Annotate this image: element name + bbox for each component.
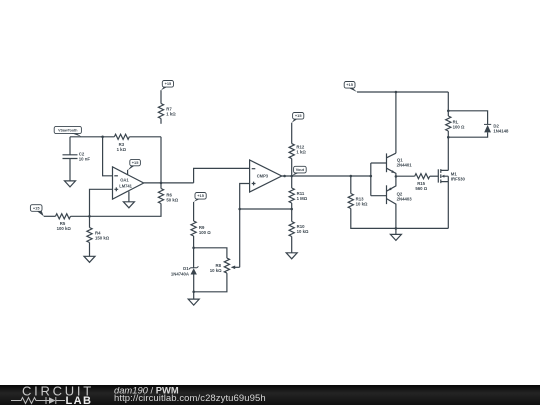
ground below R10	[286, 253, 297, 259]
wire base column and stubs	[371, 163, 387, 196]
wire R13 bottom to rail	[351, 209, 449, 229]
node D1/R8 bottom junction	[192, 291, 195, 294]
svg-text:VSawTooth: VSawTooth	[58, 128, 77, 132]
wire feedback column down to R6	[160, 137, 162, 189]
resistor R15	[415, 174, 430, 191]
node wiper column junction	[238, 208, 241, 211]
svg-text:10 nF: 10 nF	[79, 157, 91, 162]
svg-text:150 kΩ: 150 kΩ	[95, 235, 110, 240]
node OA1 output junction	[160, 182, 163, 185]
wire R13 top lead	[350, 176, 352, 194]
svg-text:OA1: OA1	[120, 178, 129, 183]
wire +15 top rail	[357, 91, 448, 93]
wire CMP3 output to base junction	[282, 175, 371, 177]
node RL top junction	[447, 110, 450, 113]
wire riser output to CMP3 inverting input	[194, 168, 250, 183]
wire CMP3 noninverting branch to wiper	[240, 184, 250, 268]
wire Q1 collector column	[395, 92, 397, 153]
power +15 callout right rail	[344, 82, 357, 93]
wire C2 bottom lead	[69, 159, 71, 182]
node RL bottom junction	[447, 136, 450, 139]
svg-text:+15: +15	[33, 205, 40, 210]
svg-text:http://circuitlab.com/c28zytu6: http://circuitlab.com/c28zytu69u95h	[114, 393, 266, 404]
comparator CMP3	[250, 160, 282, 192]
capacitor C2	[63, 152, 91, 162]
wire +15 to R9	[193, 202, 195, 221]
wire R8 bottom lead	[194, 273, 227, 292]
diode D2 1N4148	[484, 123, 509, 133]
svg-text:+15: +15	[346, 82, 353, 87]
wire R15 to gate	[430, 175, 439, 177]
wire D2 anode back to RL bottom	[448, 132, 487, 137]
wire RL bottom lead	[447, 131, 449, 137]
resistor R5	[56, 214, 72, 232]
transistor Q2 2N4403	[387, 176, 413, 228]
ground on bottom rail	[390, 234, 401, 240]
ground pin OA1	[123, 191, 134, 207]
zener diode D1 1N4740A	[171, 266, 199, 276]
wire junction to ground	[193, 292, 195, 299]
power +15 callout for R7	[161, 81, 174, 91]
wire R4 to ground	[89, 243, 91, 257]
svg-text:10 kΩ: 10 kΩ	[297, 229, 309, 234]
svg-text:+15: +15	[165, 81, 172, 86]
wire R12 to Vout node	[291, 159, 293, 176]
wire OA1 output	[144, 182, 194, 184]
svg-text:+15: +15	[295, 113, 302, 118]
wire +15 to R7	[160, 90, 162, 103]
node Vout junction dot	[290, 175, 293, 178]
power +15 callout for R9	[194, 193, 207, 202]
svg-text:100 kΩ: 100 kΩ	[57, 226, 72, 231]
svg-text:2N4401: 2N4401	[397, 162, 413, 167]
svg-text:+15: +15	[132, 160, 139, 165]
svg-text:10 kΩ: 10 kΩ	[210, 268, 222, 273]
svg-text:1N4148: 1N4148	[493, 128, 509, 133]
ground below R4	[84, 256, 95, 262]
wire R3 to feedback column	[129, 136, 161, 138]
resistor R11	[289, 176, 308, 203]
node top rail / Q1 collector junction	[395, 91, 398, 94]
svg-text:1 MΩ: 1 MΩ	[297, 196, 308, 201]
svg-text:CMP3: CMP3	[257, 174, 269, 179]
svg-text:2N4403: 2N4403	[397, 196, 413, 201]
node VSawTooth	[54, 126, 81, 136]
resistor R10	[289, 222, 309, 237]
svg-text:LAB: LAB	[66, 395, 93, 405]
resistor R4	[87, 228, 110, 243]
CircuitLab logo resistor-diode squiggle	[11, 397, 65, 404]
svg-text:Vout: Vout	[296, 167, 305, 172]
resistor R3	[114, 134, 129, 152]
wire R8 top lead	[194, 248, 227, 258]
node rail / Q2 collector / ground junction	[395, 227, 398, 230]
ground below D1	[188, 299, 199, 305]
wire R9 to D1 node	[193, 236, 195, 248]
svg-text:1N4740A: 1N4740A	[171, 271, 189, 276]
transistor Q1 2N4401	[387, 153, 413, 176]
resistor RL	[446, 116, 465, 131]
wire M1 source to rail	[447, 182, 449, 229]
wire M1 drain to RL	[447, 137, 449, 170]
wire R10 to ground	[291, 237, 293, 253]
node R13 top junction	[350, 175, 353, 178]
ground below C2	[65, 181, 76, 187]
wire R7 bottom stub	[160, 119, 162, 124]
svg-text:1 kΩ: 1 kΩ	[117, 147, 127, 152]
wire R5 to junction	[71, 215, 90, 217]
svg-text:10 kΩ: 10 kΩ	[356, 201, 368, 206]
power +15 callout for R5	[30, 205, 43, 217]
wire +15 to R5	[44, 215, 56, 217]
svg-text:+15: +15	[197, 193, 204, 198]
potentiometer R8	[210, 258, 240, 273]
node R11/R10 junction	[290, 208, 293, 211]
wire R6 bottom to junction	[90, 204, 162, 217]
resistor R9	[191, 221, 211, 236]
power +15 callout for R12	[292, 113, 304, 123]
wire rail ground stem	[395, 228, 397, 234]
mosfet M1 IRF530	[438, 169, 465, 183]
resistor R6	[158, 189, 178, 204]
wire wiper column to R11/R10 node	[240, 208, 292, 210]
node CMP3 output dot	[283, 175, 286, 178]
wire R11 to R10	[291, 203, 293, 222]
op-amp OA1 LM741	[113, 167, 144, 199]
node R9/D1/R8 junction	[192, 247, 195, 250]
node junction top wire / inverting branch	[101, 136, 104, 139]
wire D1 cathode lead	[193, 248, 195, 268]
wire OA1 noninverting input branch	[90, 189, 113, 216]
resistor R7	[158, 104, 176, 119]
wire C2 top lead	[69, 137, 71, 155]
svg-text:IRF530: IRF530	[451, 177, 466, 182]
svg-text:1 kΩ: 1 kΩ	[166, 112, 176, 117]
resistor R13	[348, 194, 368, 209]
svg-text:50 kΩ: 50 kΩ	[166, 198, 178, 203]
wire inverting input branch	[103, 137, 113, 176]
node base junction	[370, 175, 373, 178]
svg-text:100 Ω: 100 Ω	[199, 230, 211, 235]
svg-text:560 Ω: 560 Ω	[415, 186, 427, 191]
wire junction to R4	[89, 216, 91, 227]
wire VSawTooth node to R3	[70, 136, 114, 138]
wire D2 branch top	[448, 111, 487, 125]
wire +15 to R12	[291, 123, 293, 144]
node Vout callout	[292, 166, 307, 176]
wire top rail down to RL	[447, 92, 449, 116]
wire emitters to R15	[396, 175, 415, 177]
node junction R5/R4/R6/noninverting	[88, 215, 91, 218]
power +15 callout for OA1	[128, 159, 141, 174]
svg-text:1 kΩ: 1 kΩ	[296, 150, 306, 155]
svg-text:LM741: LM741	[119, 184, 132, 189]
svg-text:100 Ω: 100 Ω	[453, 125, 465, 130]
resistor R12	[289, 144, 306, 159]
node emitter junction	[395, 175, 398, 178]
wire D1 anode to bottom junction	[193, 275, 195, 292]
